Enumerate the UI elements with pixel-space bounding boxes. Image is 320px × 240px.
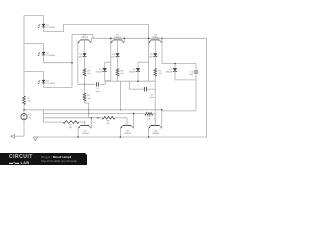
svg-text:(1k): (1k)	[158, 73, 161, 75]
svg-text:(1k): (1k)	[69, 127, 72, 129]
svg-text:2N3904: 2N3904	[124, 133, 132, 135]
svg-text:LTL-307EE: LTL-307EE	[46, 83, 55, 85]
svg-text:1N4148: 1N4148	[96, 71, 102, 73]
svg-text:2N3904: 2N3904	[114, 37, 122, 39]
svg-text:1N4148: 1N4148	[129, 71, 135, 73]
svg-text:(1k): (1k)	[147, 119, 150, 121]
svg-text:(1k): (1k)	[121, 73, 124, 75]
svg-text:LTL-307EE: LTL-307EE	[46, 55, 55, 57]
svg-text:1N4148: 1N4148	[166, 71, 172, 73]
svg-text:10k: 10k	[28, 101, 31, 103]
svg-text:(1k): (1k)	[106, 123, 109, 125]
svg-text:(1k): (1k)	[88, 73, 91, 75]
svg-text:2N3904: 2N3904	[82, 133, 90, 135]
svg-text:2N3904: 2N3904	[152, 133, 160, 135]
svg-text:2N3904: 2N3904	[152, 37, 160, 39]
svg-text:10k: 10k	[88, 98, 91, 100]
svg-text:LTL-307EE: LTL-307EE	[46, 27, 55, 29]
svg-text:2N3904: 2N3904	[81, 37, 89, 39]
